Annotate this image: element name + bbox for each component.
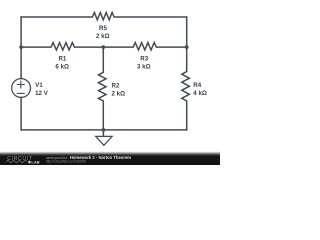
svg-text:V1: V1 <box>35 82 43 89</box>
svg-text:2 kΩ: 2 kΩ <box>96 33 110 40</box>
svg-text:R3: R3 <box>140 55 148 62</box>
svg-text:4 kΩ: 4 kΩ <box>193 90 207 97</box>
svg-text:3 kΩ: 3 kΩ <box>137 63 151 70</box>
svg-text:6 kΩ: 6 kΩ <box>55 63 69 70</box>
svg-text:http://circuitlab.com/c/j26f6: http://circuitlab.com/c/j26f6 <box>46 160 86 164</box>
svg-text:R1: R1 <box>58 55 66 62</box>
svg-text:R5: R5 <box>99 25 107 32</box>
svg-text:12 V: 12 V <box>35 90 49 97</box>
svg-text:R4: R4 <box>193 82 201 89</box>
svg-text:R2: R2 <box>112 82 120 89</box>
svg-text:2 kΩ: 2 kΩ <box>112 90 126 97</box>
svg-text:LAB: LAB <box>31 159 39 164</box>
